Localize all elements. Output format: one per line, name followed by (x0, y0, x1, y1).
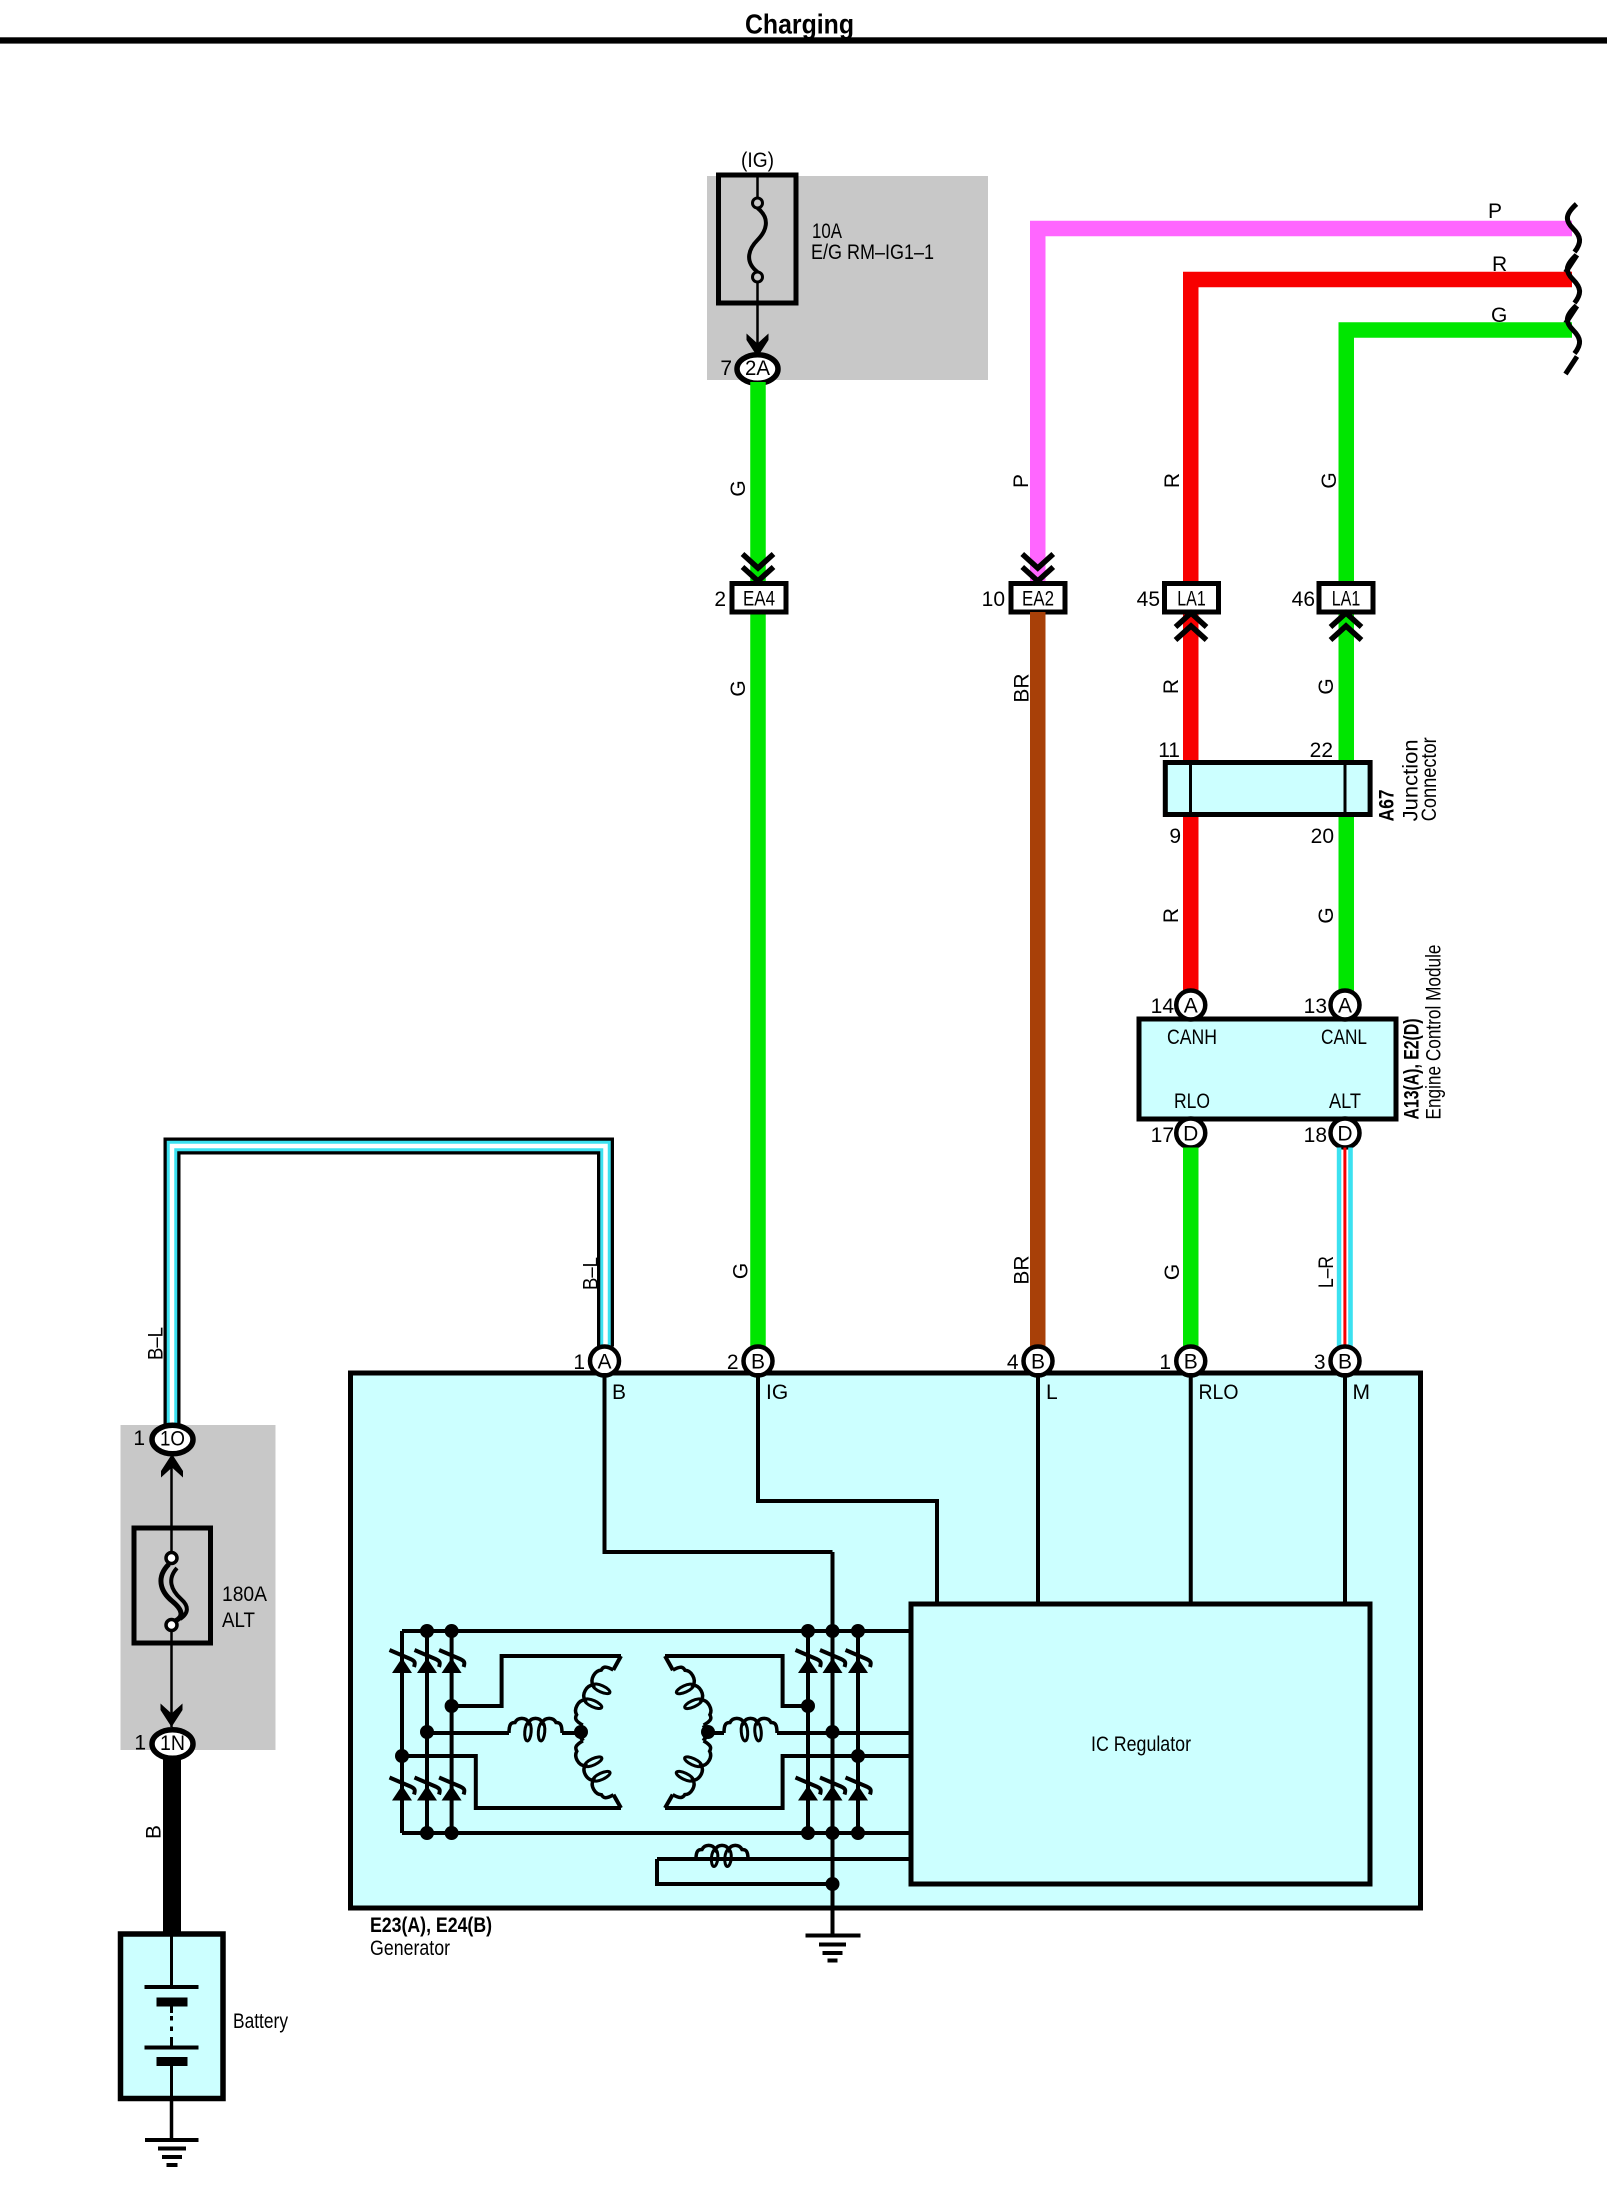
svg-text:R: R (1492, 253, 1507, 276)
svg-text:L–R: L–R (1315, 1256, 1338, 1288)
svg-text:3: 3 (1314, 1351, 1326, 1374)
svg-text:45: 45 (1137, 588, 1160, 611)
svg-text:10A: 10A (812, 220, 842, 243)
svg-text:1: 1 (134, 1732, 146, 1755)
svg-text:BR: BR (1011, 1255, 1034, 1284)
svg-text:E23(A), E24(B): E23(A), E24(B) (370, 1914, 492, 1937)
svg-text:180A: 180A (222, 1583, 267, 1606)
svg-text:RLO: RLO (1174, 1090, 1210, 1113)
svg-text:G: G (727, 480, 750, 496)
svg-text:A67: A67 (1376, 789, 1399, 821)
svg-text:17: 17 (1151, 1124, 1174, 1147)
svg-text:46: 46 (1292, 588, 1315, 611)
svg-text:A: A (1338, 995, 1352, 1018)
svg-text:B: B (1031, 1351, 1045, 1374)
svg-text:G: G (1315, 678, 1338, 694)
svg-text:2: 2 (714, 588, 726, 611)
svg-text:BR: BR (1011, 673, 1034, 702)
svg-text:G: G (1318, 472, 1341, 488)
svg-text:E/G RM–IG1–1: E/G RM–IG1–1 (811, 241, 934, 264)
svg-text:13: 13 (1304, 995, 1327, 1018)
svg-text:CANH: CANH (1167, 1026, 1217, 1049)
svg-text:B: B (143, 1825, 166, 1839)
svg-text:Connector: Connector (1418, 737, 1441, 821)
svg-text:4: 4 (1007, 1351, 1019, 1374)
svg-text:ALT: ALT (222, 1609, 255, 1632)
svg-text:D: D (1183, 1123, 1198, 1146)
svg-text:1O: 1O (160, 1427, 185, 1450)
svg-text:10: 10 (982, 588, 1005, 611)
svg-text:Charging: Charging (745, 9, 854, 40)
svg-text:R: R (1160, 679, 1183, 694)
svg-text:B: B (612, 1381, 626, 1404)
svg-text:9: 9 (1169, 825, 1181, 848)
svg-text:B: B (1184, 1351, 1198, 1374)
svg-text:G: G (1315, 907, 1338, 923)
svg-text:IG: IG (766, 1381, 788, 1404)
svg-text:G: G (730, 1263, 753, 1279)
svg-text:A13(A), E2(D): A13(A), E2(D) (1400, 1019, 1423, 1120)
svg-text:R: R (1161, 473, 1184, 488)
svg-text:1: 1 (573, 1351, 585, 1374)
svg-text:D: D (1337, 1123, 1352, 1146)
svg-text:R: R (1160, 908, 1183, 923)
svg-text:B–L: B–L (580, 1257, 603, 1290)
svg-text:7: 7 (720, 357, 732, 380)
svg-text:14: 14 (1151, 995, 1175, 1018)
svg-text:2: 2 (727, 1351, 739, 1374)
svg-text:20: 20 (1311, 825, 1334, 848)
svg-text:2A: 2A (745, 357, 770, 380)
svg-text:1: 1 (1159, 1351, 1171, 1374)
svg-text:P: P (1488, 200, 1502, 223)
svg-text:EA2: EA2 (1022, 587, 1054, 610)
svg-text:M: M (1353, 1381, 1371, 1404)
svg-text:18: 18 (1304, 1124, 1327, 1147)
svg-text:22: 22 (1310, 739, 1333, 762)
svg-text:B–L: B–L (145, 1327, 168, 1360)
svg-text:Engine Control Module: Engine Control Module (1422, 945, 1445, 1120)
svg-text:G: G (727, 680, 750, 696)
svg-text:IC Regulator: IC Regulator (1091, 1733, 1191, 1756)
svg-text:1: 1 (133, 1427, 145, 1450)
svg-text:ALT: ALT (1329, 1090, 1361, 1113)
svg-text:B: B (1338, 1351, 1352, 1374)
svg-text:A: A (597, 1351, 611, 1374)
svg-text:CANL: CANL (1321, 1026, 1367, 1049)
svg-text:A: A (1184, 995, 1198, 1018)
svg-text:G: G (1491, 304, 1507, 327)
svg-text:RLO: RLO (1199, 1381, 1239, 1404)
svg-text:EA4: EA4 (743, 587, 775, 610)
svg-text:B: B (751, 1351, 765, 1374)
svg-text:Battery: Battery (233, 2010, 288, 2033)
svg-text:LA1: LA1 (1177, 587, 1206, 610)
svg-text:(IG): (IG) (741, 149, 774, 172)
svg-text:P: P (1010, 474, 1033, 488)
svg-text:11: 11 (1158, 739, 1180, 762)
svg-text:LA1: LA1 (1332, 587, 1361, 610)
svg-text:1N: 1N (160, 1732, 185, 1755)
svg-text:L: L (1046, 1381, 1058, 1404)
svg-text:G: G (1161, 1264, 1184, 1280)
svg-text:Generator: Generator (370, 1937, 450, 1960)
